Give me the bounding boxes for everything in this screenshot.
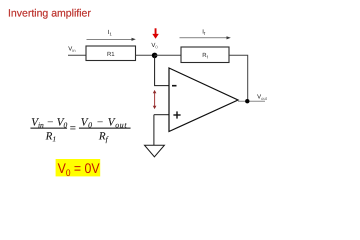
wire: non-inverting input down to ground — [153, 115, 155, 146]
red double-headed arrow at inverting input — [153, 90, 157, 109]
red arrow into node V0 — [152, 28, 159, 39]
svg-text:Vout: Vout — [257, 94, 268, 102]
svg-text:R1: R1 — [107, 51, 115, 58]
svg-text:V0: V0 — [151, 42, 158, 50]
svg-text:R1: R1 — [45, 130, 56, 143]
svg-text:Rf: Rf — [98, 130, 109, 143]
svg-text:If: If — [202, 29, 206, 37]
junction node V0 — [152, 53, 158, 59]
formula: (Vin - V0)/R1 = (V0 - Vout)/Rf — [31, 116, 131, 143]
wire: node V0 to Rf — [155, 54, 181, 56]
resistor R1 — [86, 46, 136, 61]
current arrow If — [180, 29, 231, 40]
wire: Rf to output (down) — [229, 55, 248, 101]
svg-text:I1: I1 — [108, 29, 113, 37]
svg-text:Vin: Vin — [68, 45, 76, 53]
wire: node V0 down to inverting input — [155, 55, 169, 85]
junction node output — [245, 99, 249, 103]
wire: op-amp output — [238, 100, 265, 102]
wire: R1 to node V0 — [136, 54, 155, 56]
wire: Vin to R1 — [68, 54, 86, 56]
resistor Rf — [181, 47, 229, 63]
svg-text:=: = — [70, 123, 76, 135]
wire: non-inverting input — [154, 114, 169, 116]
ground — [145, 145, 165, 157]
current arrow I1 — [87, 29, 136, 41]
op-amp U1 — [169, 68, 238, 132]
highlighted note V0 = 0V — [56, 159, 101, 179]
svg-text:Inverting amplifier: Inverting amplifier — [8, 8, 91, 20]
